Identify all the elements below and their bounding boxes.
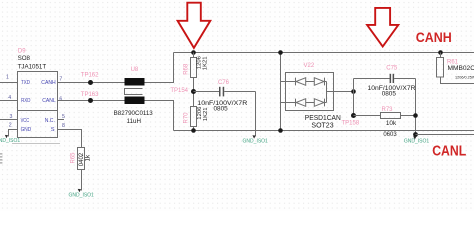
svg-text:MMB02C0113: MMB02C0113 xyxy=(448,65,474,72)
wire right node vertical xyxy=(415,79,417,135)
junction node GND line xyxy=(413,132,418,137)
svg-text:8: 8 xyxy=(62,123,65,129)
svg-text:1k: 1k xyxy=(84,154,91,161)
resistor R70 xyxy=(184,106,210,131)
svg-text:R68: R68 xyxy=(184,63,190,75)
wire GND_ISO1 line to right edge xyxy=(416,134,474,136)
common-mode choke U8 B82790C0113 xyxy=(114,67,154,125)
svg-text:SOT23: SOT23 xyxy=(311,122,333,129)
wire CANH choke to corner up xyxy=(145,53,174,83)
svg-text:2: 2 xyxy=(9,122,12,128)
junction node PESD top xyxy=(278,50,283,55)
diode D2 upper right xyxy=(306,78,327,86)
junction node at R68 top xyxy=(191,50,196,55)
svg-text:1206: 1206 xyxy=(197,106,203,120)
wire N.C. pin 5 stub xyxy=(58,119,65,121)
svg-text:VCC: VCC xyxy=(21,118,30,124)
svg-text:SO8: SO8 xyxy=(18,55,31,62)
wire PESD left vertical xyxy=(280,53,282,131)
svg-text:D9: D9 xyxy=(18,48,26,54)
wire GND pin 2 xyxy=(9,130,18,137)
red arrow marker 1 xyxy=(178,3,211,48)
IC D9 TJA1051T CAN transceiver xyxy=(18,48,58,137)
testpoint TP162 xyxy=(81,72,99,85)
label PESD1CAN SOT23 xyxy=(305,115,341,129)
svg-text:0603: 0603 xyxy=(383,132,397,138)
svg-text:TP154: TP154 xyxy=(170,88,188,94)
svg-text:R70: R70 xyxy=(184,112,190,124)
resistor R73 xyxy=(354,107,416,138)
wire left node vertical xyxy=(353,79,355,116)
wire RXD pin 4 xyxy=(0,100,18,102)
svg-text:U8: U8 xyxy=(131,67,139,73)
svg-text:C76: C76 xyxy=(218,80,230,86)
wire C76 down to ground xyxy=(255,92,257,137)
svg-text:0805: 0805 xyxy=(382,91,397,98)
wire PESD lower pin stub xyxy=(281,102,286,104)
svg-text:TXD: TXD xyxy=(21,80,30,86)
ground GND_ISO1 at C76 xyxy=(243,135,269,144)
wire CANH pin 7 to choke xyxy=(58,82,125,84)
svg-text:CANH: CANH xyxy=(41,80,55,86)
svg-text:C75: C75 xyxy=(386,65,398,71)
resistor R68 xyxy=(184,53,209,107)
svg-text:1: 1 xyxy=(6,75,9,81)
svg-text:TP163: TP163 xyxy=(81,92,99,98)
svg-text:B82790C0113: B82790C0113 xyxy=(114,110,154,117)
svg-text:TJA1051T: TJA1051T xyxy=(18,64,47,71)
svg-text:N.C.: N.C. xyxy=(45,118,56,124)
wire CANL choke to corner down xyxy=(145,101,174,131)
ground GND_ISO1 at IC pin 2 xyxy=(0,135,20,144)
resistor R61 xyxy=(437,53,474,84)
svg-text:PESD1CAN: PESD1CAN xyxy=(305,115,341,122)
capacitor C76 xyxy=(194,80,256,112)
svg-text:GND_ISO1: GND_ISO1 xyxy=(243,139,269,145)
wire VCC pin 3 xyxy=(0,119,18,121)
wire S pin 8 xyxy=(58,130,82,148)
red arrow marker 2 xyxy=(367,8,398,47)
capacitor C75 xyxy=(354,65,416,97)
svg-text:1K21: 1K21 xyxy=(203,107,209,121)
svg-text:S: S xyxy=(51,127,55,133)
junction node PESD right xyxy=(351,89,356,94)
junction node R73 right xyxy=(413,113,418,118)
svg-text:R73: R73 xyxy=(382,107,394,113)
wire PESD upper pin stub xyxy=(281,81,286,83)
svg-text:TP158: TP158 xyxy=(342,120,360,126)
wire CANL pin 6 to choke xyxy=(58,100,125,102)
svg-text:GND: GND xyxy=(21,127,32,133)
diode array V22 PESD1CAN xyxy=(286,63,334,111)
svg-text:CANH: CANH xyxy=(416,29,452,45)
diode D1 upper left xyxy=(286,78,306,86)
svg-text:CANL: CANL xyxy=(42,98,56,104)
svg-text:GND_ISO1: GND_ISO1 xyxy=(69,192,95,198)
svg-text:1206/0.25W/1%: 1206/0.25W/1% xyxy=(455,76,474,80)
svg-text:CANL: CANL xyxy=(432,144,466,160)
diode D3 lower left xyxy=(286,99,306,107)
wire PESD right pin to node xyxy=(334,91,354,93)
junction node R61 top xyxy=(438,50,443,55)
wire TXD pin 1 xyxy=(0,82,18,84)
ground GND_ISO1 at R65 xyxy=(69,189,95,199)
svg-text:TP162: TP162 xyxy=(81,72,99,78)
faint divider line xyxy=(12,143,60,145)
svg-text:1K21: 1K21 xyxy=(202,56,208,70)
svg-text:0805: 0805 xyxy=(213,105,228,112)
svg-text:6: 6 xyxy=(59,96,62,102)
svg-text:RXD: RXD xyxy=(21,98,30,104)
wire internal common leg xyxy=(327,82,334,103)
svg-text:7: 7 xyxy=(59,76,62,82)
wire CANL bottom bus xyxy=(174,130,474,132)
resistor R65 xyxy=(71,148,92,191)
junction node PESD bottom xyxy=(278,128,283,133)
testpoint TP154 xyxy=(170,88,196,94)
diode D4 lower right xyxy=(306,99,327,107)
svg-text:GND_ISO1: GND_ISO1 xyxy=(404,139,430,145)
junction node R70 bottom xyxy=(191,128,196,133)
svg-text:11uH: 11uH xyxy=(127,118,141,125)
svg-text:R65: R65 xyxy=(71,152,77,164)
testpoint TP158 xyxy=(342,113,360,126)
svg-text:10k: 10k xyxy=(386,120,397,127)
sheet edge tick marks xyxy=(0,153,2,163)
testpoint TP163 xyxy=(81,92,99,103)
svg-text:V22: V22 xyxy=(304,63,315,69)
ground GND_ISO1 right xyxy=(404,136,430,144)
wire CANH top bus xyxy=(174,52,474,54)
